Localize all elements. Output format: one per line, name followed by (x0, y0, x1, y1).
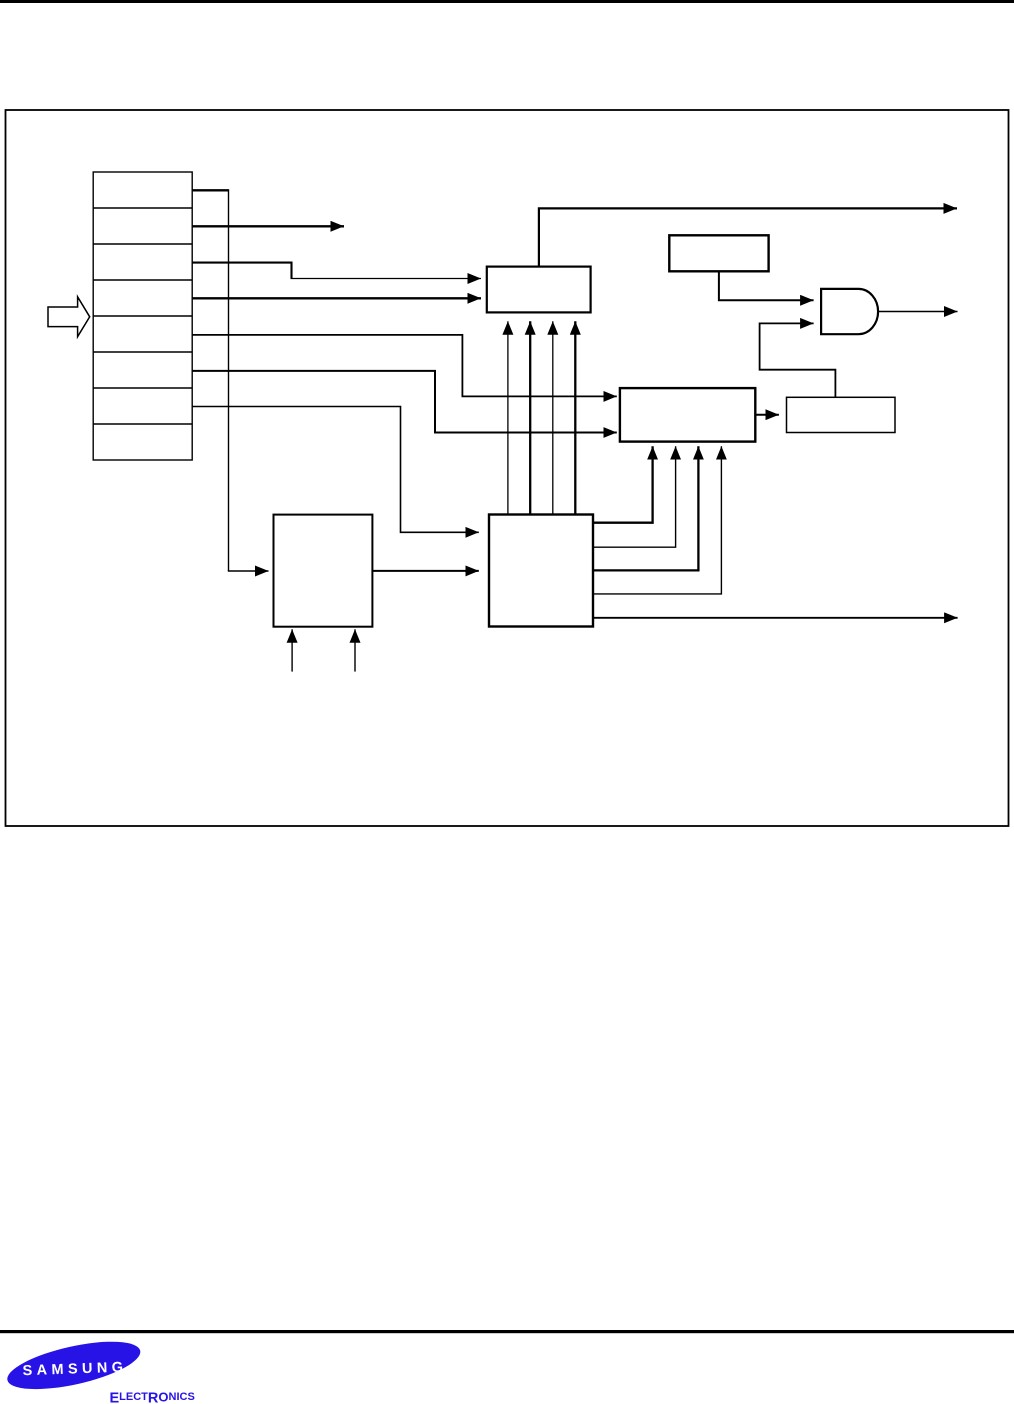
lower-right box (787, 397, 896, 432)
wire lower-left box to big decoder box (372, 570, 478, 572)
top-right box (669, 235, 768, 271)
bottom rule line (0, 1330, 1014, 1333)
diagram frame (6, 110, 1009, 826)
wire row5 to middle-right box (192, 335, 617, 397)
wire big box to middle-right box bus 1 (593, 446, 653, 523)
wire row1 vertical down (228, 189, 230, 571)
samsung logo ellipse (3, 1332, 144, 1399)
wire row2 arrow (192, 225, 344, 227)
wire middle-right box to lower-right box (755, 414, 779, 416)
wire row7 to big decoder box (192, 407, 479, 533)
svg-text:ELECTRONICS: ELECTRONICS (110, 1390, 195, 1404)
wire big box to top-middle box bus 4 (574, 321, 576, 514)
big decoder box (489, 515, 593, 627)
wire big box to middle-right box bus 4 (593, 446, 721, 594)
register stack box (93, 172, 192, 460)
top-middle box (487, 267, 591, 313)
input block arrow (48, 297, 90, 337)
wire row1 horizontal (192, 189, 228, 191)
wire long bottom output arrow (593, 617, 958, 619)
wire top-right box to AND gate input 1 (719, 271, 814, 300)
wire big box to top-middle box bus 2 (529, 321, 531, 514)
wire big box to middle-right box bus 2 (593, 446, 676, 547)
wire big box to top-middle box bus 3 (552, 321, 554, 514)
svg-text:SAMSUNG: SAMSUNG (22, 1360, 127, 1380)
AND gate (821, 289, 878, 334)
wire row4 arrow to top-middle box (192, 297, 481, 299)
wire row1 arrow into lower-left box (228, 570, 269, 572)
middle-right box (620, 388, 755, 442)
wire AND gate output arrow (878, 311, 957, 313)
wire clock input arrow 1 (291, 629, 293, 671)
wire lower-right box to AND gate input 2 (760, 323, 836, 397)
lower-left box (274, 515, 373, 627)
wire clock input arrow 2 (354, 629, 356, 671)
wire big box to middle-right box bus 3 (593, 446, 698, 570)
wire from top-middle box to top-right output arrow (539, 208, 957, 266)
wire big box to top-middle box bus 1 (507, 321, 509, 514)
top rule bar (0, 0, 1014, 3)
wire row3 to top-middle box (192, 263, 291, 279)
wire row6 to middle-right box (192, 371, 617, 433)
